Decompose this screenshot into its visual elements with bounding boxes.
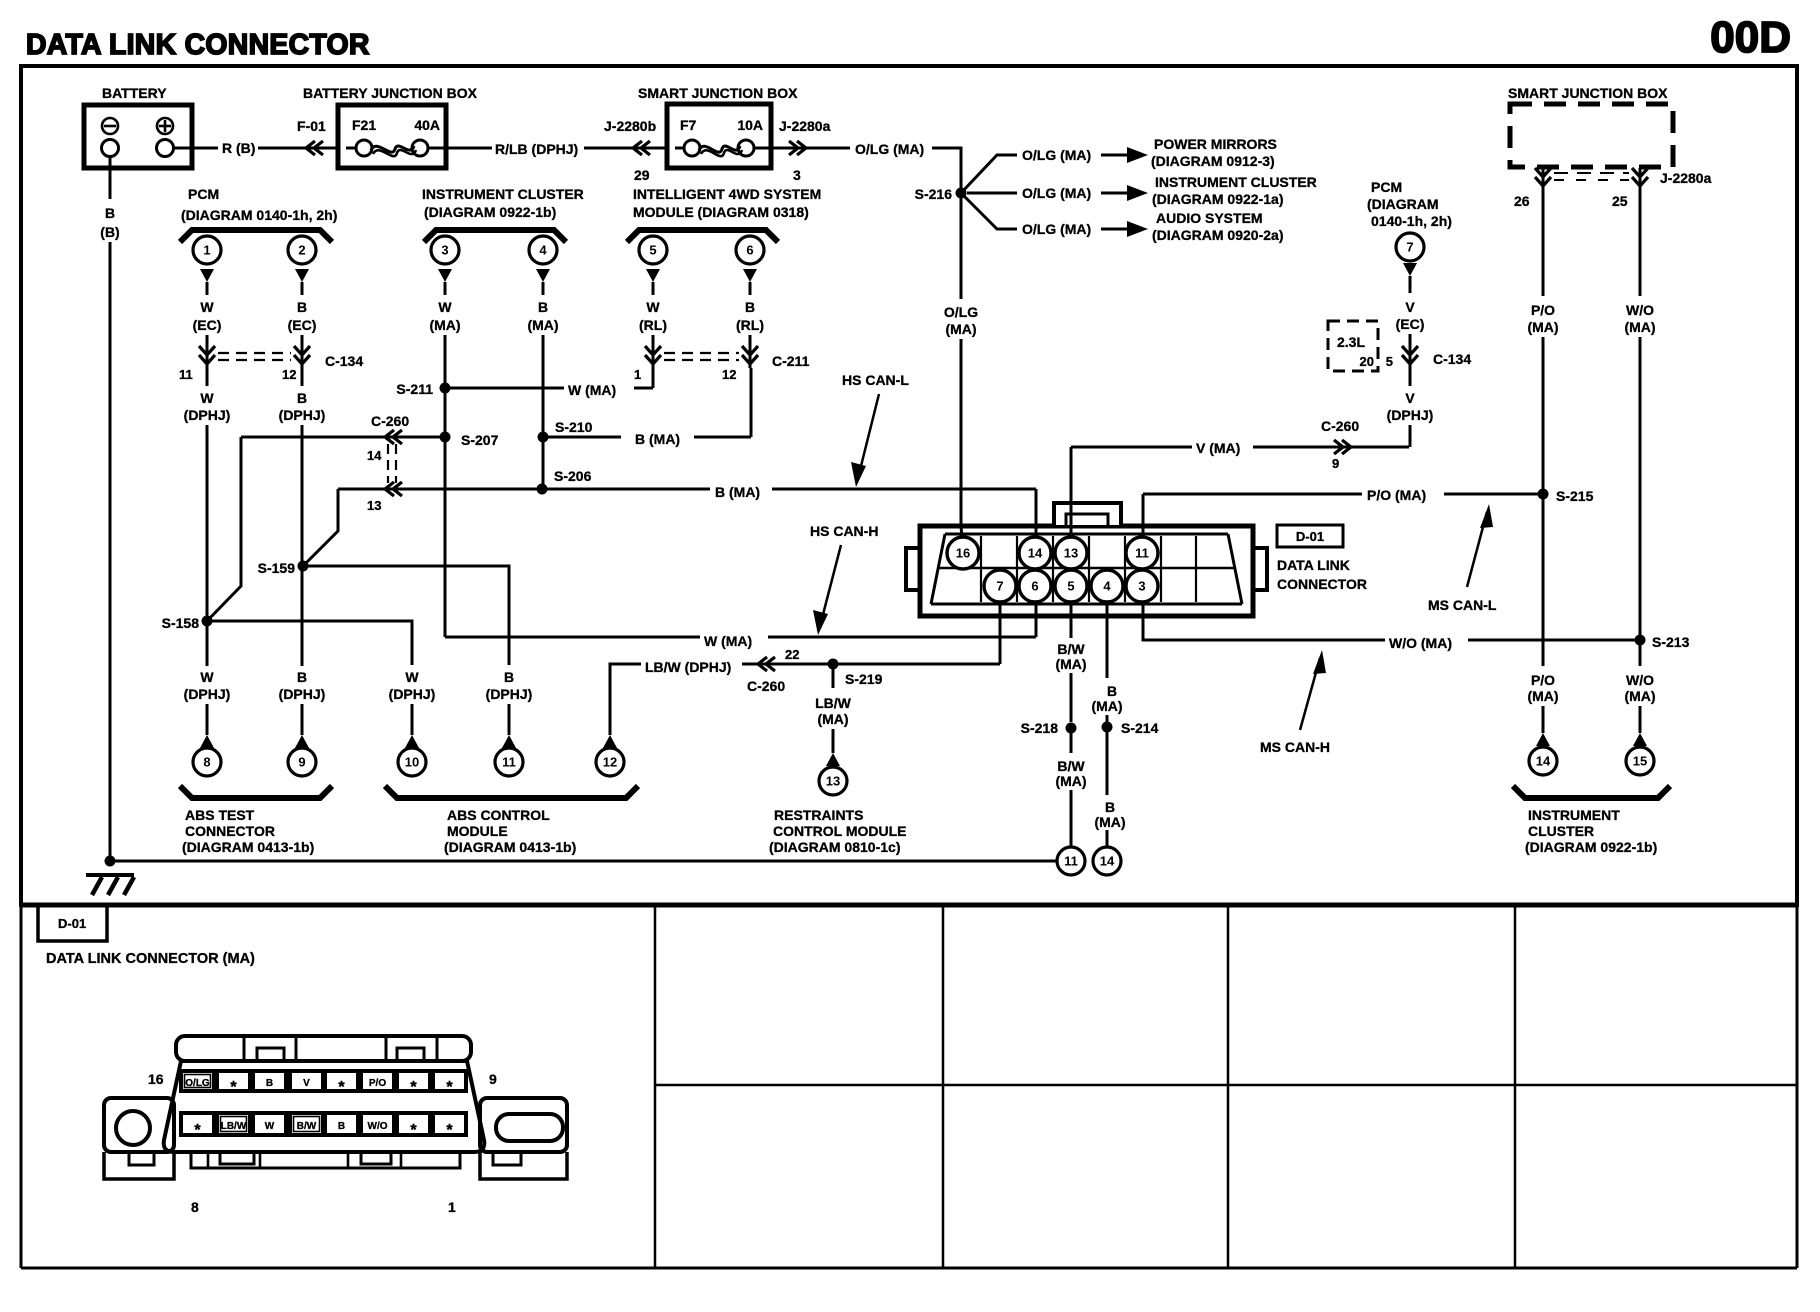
svg-text:W: W — [200, 299, 214, 315]
svg-text:P/O (MA): P/O (MA) — [1367, 487, 1426, 503]
svg-text:W: W — [405, 669, 419, 685]
svg-text:(DPHJ): (DPHJ) — [389, 686, 436, 702]
battery BATT — [84, 105, 192, 168]
DLC face pins bottom row — [181, 1113, 214, 1135]
wire B (EC) from pin at x=302 — [295, 269, 309, 282]
svg-text:B: B — [266, 1078, 273, 1089]
svg-text:O/LG: O/LG — [944, 304, 978, 320]
svg-text:LB/W (DPHJ): LB/W (DPHJ) — [645, 659, 731, 675]
svg-text:W: W — [200, 669, 214, 685]
svg-text:*: * — [194, 1122, 201, 1139]
main diagram frame — [21, 66, 1797, 905]
wire P/O (MA) from SJB pin 26 — [1542, 186, 1545, 296]
svg-text:*: * — [230, 1079, 237, 1096]
svg-text:W/O: W/O — [368, 1121, 388, 1132]
splice S-216 — [956, 188, 967, 199]
DLC pin 16 — [947, 537, 979, 569]
svg-text:3: 3 — [793, 167, 801, 183]
svg-text:*: * — [410, 1079, 417, 1096]
svg-text:LB/W: LB/W — [221, 1121, 247, 1132]
wire P/O (MA) DLC pin 11 riser — [1142, 494, 1145, 538]
svg-text:2.3L: 2.3L — [1337, 334, 1365, 350]
svg-text:P/O: P/O — [1531, 672, 1555, 688]
wire O/LG (MA) vertical to DLC pin 16 — [960, 193, 963, 299]
svg-text:CONNECTOR: CONNECTOR — [185, 823, 275, 839]
svg-text:B/W: B/W — [1057, 758, 1085, 774]
wire battery positive to R (B) — [174, 147, 218, 150]
D-01 cell tag — [38, 905, 107, 941]
svg-text:C-134: C-134 — [1433, 351, 1471, 367]
svg-text:1: 1 — [448, 1199, 456, 1215]
DLC face top strip — [176, 1036, 471, 1061]
connector C-211 pins 1/12 — [652, 346, 655, 368]
wire B (MA) S-210 to C-211 pin 12 — [543, 436, 621, 439]
splice S-159 — [298, 561, 309, 572]
wire V (EC) — [1403, 263, 1417, 276]
instrument cluster pin 3 — [431, 236, 459, 264]
ground symbol — [86, 873, 134, 877]
instrument cluster bracket — [424, 230, 566, 242]
svg-text:S-215: S-215 — [1556, 488, 1594, 504]
wire B (RL) from pin at x=750 — [743, 269, 757, 282]
wire LB/W (DPHJ) horizontal — [610, 664, 641, 700]
svg-text:40A: 40A — [414, 117, 440, 133]
wire instrument cluster B vertical — [542, 346, 545, 489]
ABS test connector bracket — [180, 786, 332, 798]
svg-text:W: W — [200, 390, 214, 406]
DLC pin 3 — [1126, 570, 1158, 602]
wire W (DPHJ) PCM pin1 vertical above label — [206, 621, 209, 666]
svg-text:(DIAGRAM 0810-1c): (DIAGRAM 0810-1c) — [769, 839, 900, 855]
svg-text:(EC): (EC) — [1396, 316, 1425, 332]
splice S-219 — [828, 659, 839, 670]
DLC pin 6 — [1019, 570, 1051, 602]
table middle line — [655, 1084, 1797, 1087]
svg-text:(MA): (MA) — [1624, 688, 1655, 704]
svg-text:S-214: S-214 — [1121, 720, 1159, 736]
svg-text:15: 15 — [1633, 754, 1647, 769]
svg-text:B: B — [538, 299, 548, 315]
svg-text:S-206: S-206 — [554, 468, 592, 484]
svg-text:J-2280a: J-2280a — [779, 118, 831, 134]
ground junction — [105, 856, 116, 867]
DLC inner outline — [931, 534, 1242, 604]
wire branch to instrument cluster — [967, 192, 1017, 195]
wire bend to S-159 — [303, 489, 338, 566]
svg-text:(DPHJ): (DPHJ) — [279, 686, 326, 702]
svg-text:W: W — [438, 299, 452, 315]
wire W/O (MA) from SJB pin 25 — [1639, 186, 1642, 296]
svg-text:(MA): (MA) — [1055, 773, 1086, 789]
svg-text:O/LG (MA): O/LG (MA) — [855, 141, 924, 157]
svg-text:W (MA): W (MA) — [704, 633, 752, 649]
battery junction box — [338, 105, 446, 168]
svg-text:W/O: W/O — [1626, 672, 1654, 688]
svg-text:CONTROL MODULE: CONTROL MODULE — [773, 823, 907, 839]
svg-text:B: B — [297, 299, 307, 315]
svg-text:J-2280b: J-2280b — [604, 118, 656, 134]
svg-text:(MA): (MA) — [429, 317, 460, 333]
svg-text:ABS TEST: ABS TEST — [185, 807, 255, 823]
wire W/O (MA) to instrument cluster pin 15 — [1639, 640, 1642, 666]
ABS pin 8 — [193, 748, 221, 776]
svg-text:16: 16 — [148, 1071, 164, 1087]
svg-text:(RL): (RL) — [736, 317, 764, 333]
connector J-2280a chevron — [771, 147, 850, 150]
svg-text:B: B — [338, 1121, 345, 1132]
svg-text:(DIAGRAM 0922-1b): (DIAGRAM 0922-1b) — [1525, 839, 1657, 855]
svg-text:1: 1 — [634, 367, 641, 382]
data link connector D-01 housing — [920, 526, 1253, 616]
svg-text:*: * — [446, 1079, 453, 1096]
wire DLC pin 7 to LB/W bus — [999, 602, 1002, 664]
svg-text:11: 11 — [1064, 854, 1078, 869]
svg-text:C-134: C-134 — [325, 353, 363, 369]
DLC pin 13 riser through notch — [1070, 447, 1073, 540]
svg-text:F-01: F-01 — [297, 118, 326, 134]
svg-text:29: 29 — [634, 167, 650, 183]
connector C-260 pin 22 chevron — [758, 657, 775, 671]
svg-text:W (MA): W (MA) — [568, 382, 616, 398]
connector C-260 pin 13 — [387, 444, 389, 483]
wire instrument cluster W vertical — [444, 346, 447, 388]
svg-text:4: 4 — [539, 243, 547, 258]
svg-text:D-01: D-01 — [1296, 529, 1324, 544]
wire V (DPHJ) — [1409, 368, 1412, 386]
svg-text:AUDIO SYSTEM: AUDIO SYSTEM — [1156, 210, 1263, 226]
2.3L variant box — [1328, 321, 1378, 371]
svg-text:J-2280a: J-2280a — [1660, 170, 1712, 186]
wire W (DPHJ) PCM pin 1 — [206, 368, 209, 386]
DLC pin 7 — [984, 570, 1016, 602]
instrument cluster pin 4 — [529, 236, 557, 264]
DLC face left ear — [104, 1098, 174, 1152]
svg-text:11: 11 — [502, 755, 516, 770]
svg-text:PCM: PCM — [1371, 179, 1402, 195]
svg-text:S-213: S-213 — [1652, 634, 1690, 650]
svg-text:11: 11 — [179, 367, 193, 382]
svg-text:(DIAGRAM 0922-1b): (DIAGRAM 0922-1b) — [424, 204, 556, 220]
svg-text:(MA): (MA) — [1055, 656, 1086, 672]
DLC face left foot — [104, 1152, 174, 1179]
wire R (B) to connector F-01 — [258, 147, 338, 150]
svg-text:O/LG (MA): O/LG (MA) — [1022, 147, 1091, 163]
4WD pin 5 — [639, 236, 667, 264]
svg-text:*: * — [338, 1079, 345, 1096]
svg-text:(EC): (EC) — [288, 317, 317, 333]
svg-text:S-158: S-158 — [162, 615, 200, 631]
PCM pin 1 — [193, 236, 221, 264]
svg-text:O/LG: O/LG — [185, 1078, 210, 1089]
svg-text:C-260: C-260 — [371, 413, 409, 429]
svg-text:V (MA): V (MA) — [1196, 440, 1240, 456]
svg-text:B/W: B/W — [297, 1121, 317, 1132]
svg-text:HS CAN-H: HS CAN-H — [810, 523, 878, 539]
wire branch to power mirrors — [961, 155, 1017, 193]
PCM module bracket — [180, 230, 332, 242]
svg-text:8: 8 — [191, 1199, 199, 1215]
wire B (DPHJ) PCM pin2 vertical above label — [301, 566, 304, 666]
svg-text:(MA): (MA) — [1624, 319, 1655, 335]
DLC face right ear — [480, 1098, 567, 1152]
DLC pin 5 — [1055, 570, 1087, 602]
svg-text:B: B — [745, 299, 755, 315]
svg-text:V: V — [303, 1078, 310, 1089]
svg-text:DATA LINK: DATA LINK — [1277, 557, 1350, 573]
svg-text:(DIAGRAM 0413-1b): (DIAGRAM 0413-1b) — [444, 839, 576, 855]
svg-text:(MA): (MA) — [945, 321, 976, 337]
svg-text:20: 20 — [1360, 354, 1374, 369]
svg-text:11: 11 — [1135, 546, 1149, 561]
wire riser to DLC pin 14 — [1035, 489, 1038, 538]
svg-text:12: 12 — [282, 367, 296, 382]
svg-text:9: 9 — [298, 755, 305, 770]
svg-text:(B): (B) — [100, 224, 119, 240]
svg-text:MODULE: MODULE — [447, 823, 508, 839]
wire bend to S-158 — [207, 437, 241, 621]
svg-text:W: W — [265, 1121, 275, 1132]
svg-text:(DPHJ): (DPHJ) — [1387, 407, 1434, 423]
svg-text:(DPHJ): (DPHJ) — [279, 407, 326, 423]
wire W (MA) S-211 to C-211 pin 1 — [445, 387, 564, 390]
4WD pin 6 — [736, 236, 764, 264]
DLC top notch — [1054, 503, 1121, 525]
connector C-134 pin 5 chevron — [1409, 346, 1412, 368]
svg-text:(DIAGRAM 0922-1a): (DIAGRAM 0922-1a) — [1152, 191, 1283, 207]
svg-text:C-260: C-260 — [1321, 418, 1359, 434]
DLC pin 13 — [1055, 537, 1087, 569]
svg-text:B/W: B/W — [1057, 641, 1085, 657]
svg-text:B: B — [297, 669, 307, 685]
svg-text:7: 7 — [1406, 240, 1413, 255]
splice S-215 — [1538, 489, 1549, 500]
DLC face body — [164, 1061, 485, 1152]
svg-text:25: 25 — [1612, 193, 1628, 209]
wire B (MA) DLC pin 4 — [1106, 602, 1109, 678]
wire S-158 branch to ABS pin 10 — [207, 621, 412, 665]
svg-text:BATTERY: BATTERY — [102, 85, 167, 101]
svg-text:13: 13 — [1064, 546, 1078, 561]
svg-text:S-207: S-207 — [461, 432, 499, 448]
svg-text:C-260: C-260 — [747, 678, 785, 694]
svg-text:9: 9 — [489, 1071, 497, 1087]
svg-text:BATTERY JUNCTION BOX: BATTERY JUNCTION BOX — [303, 85, 478, 101]
svg-text:D-01: D-01 — [58, 916, 86, 931]
instrument cluster pin 14 bottom — [1529, 747, 1557, 775]
svg-text:(DPHJ): (DPHJ) — [486, 686, 533, 702]
ground connector pin 11 — [1057, 847, 1085, 875]
svg-text:(DIAGRAM 0920-2a): (DIAGRAM 0920-2a) — [1152, 227, 1283, 243]
svg-text:9: 9 — [1332, 456, 1339, 471]
svg-text:5: 5 — [1386, 354, 1393, 369]
wire B (B) battery ground — [109, 156, 112, 199]
wire B (DPHJ) PCM pin 2 — [301, 368, 304, 386]
svg-text:(DPHJ): (DPHJ) — [184, 686, 231, 702]
svg-text:S-210: S-210 — [555, 419, 593, 435]
connector J-2280a pins 26/25 — [1542, 168, 1545, 188]
svg-text:10A: 10A — [737, 117, 763, 133]
svg-text:(MA): (MA) — [1527, 688, 1558, 704]
svg-text:B: B — [1107, 683, 1117, 699]
svg-text:MS CAN-L: MS CAN-L — [1428, 597, 1497, 613]
svg-text:(DIAGRAM 0413-1b): (DIAGRAM 0413-1b) — [182, 839, 314, 855]
svg-text:V: V — [1405, 299, 1415, 315]
svg-text:12: 12 — [722, 367, 736, 382]
table column lines — [654, 905, 657, 1268]
svg-text:3: 3 — [441, 243, 448, 258]
svg-text:MS CAN-H: MS CAN-H — [1260, 739, 1330, 755]
svg-text:P/O: P/O — [1531, 302, 1555, 318]
svg-text:26: 26 — [1514, 193, 1530, 209]
smart junction box right — [1510, 104, 1673, 167]
splice S-210 — [538, 432, 549, 443]
connector F-01 chevron — [306, 141, 323, 155]
splice S-214 — [1102, 722, 1113, 733]
svg-text:R (B): R (B) — [222, 140, 255, 156]
wire B (MA) HS CAN-L bus — [338, 488, 710, 491]
wire W/O (MA) DLC pin 3 riser — [1143, 602, 1385, 640]
svg-text:(MA): (MA) — [1091, 698, 1122, 714]
svg-text:B: B — [1105, 799, 1115, 815]
svg-text:*: * — [410, 1122, 417, 1139]
PCM pin 7 — [1396, 233, 1424, 261]
svg-text:P/O: P/O — [369, 1078, 386, 1089]
svg-text:SMART JUNCTION BOX: SMART JUNCTION BOX — [1508, 85, 1668, 101]
svg-text:MODULE (DIAGRAM 0318): MODULE (DIAGRAM 0318) — [633, 204, 809, 220]
DLC face right foot — [480, 1152, 567, 1179]
svg-text:5: 5 — [649, 243, 656, 258]
wire P/O (MA) MS CAN-L bus — [1143, 493, 1362, 496]
wire ground bus to connector pin 11 — [110, 860, 1056, 863]
svg-text:B (MA): B (MA) — [635, 431, 680, 447]
svg-text:B: B — [297, 390, 307, 406]
svg-text:S-216: S-216 — [915, 186, 953, 202]
instrument cluster pin 15 bottom — [1626, 747, 1654, 775]
svg-text:S-218: S-218 — [1021, 720, 1059, 736]
PCM pin 2 — [288, 236, 316, 264]
svg-text:8: 8 — [203, 755, 210, 770]
svg-text:16: 16 — [956, 546, 970, 561]
svg-text:DATA LINK CONNECTOR (MA): DATA LINK CONNECTOR (MA) — [46, 951, 255, 967]
svg-text:SMART JUNCTION BOX: SMART JUNCTION BOX — [638, 85, 798, 101]
ABS pin 10 — [398, 748, 426, 776]
svg-text:INSTRUMENT CLUSTER: INSTRUMENT CLUSTER — [1155, 174, 1317, 190]
connector J-2280b chevron — [633, 141, 650, 155]
splice S-207 — [440, 432, 451, 443]
svg-text:(DIAGRAM: (DIAGRAM — [1367, 196, 1439, 212]
wire S-159 branch to ABS pin 11 — [303, 566, 509, 665]
DLC face bottom strip — [191, 1152, 460, 1168]
connector C-260 pin 9 chevron — [1334, 440, 1351, 454]
wire R/LB (DPHJ) — [446, 147, 492, 150]
ground connector pin 14 — [1093, 847, 1121, 875]
svg-text:INSTRUMENT: INSTRUMENT — [1528, 807, 1620, 823]
svg-text:PCM: PCM — [188, 186, 219, 202]
svg-text:14: 14 — [1028, 546, 1043, 561]
svg-text:*: * — [446, 1122, 453, 1139]
svg-text:6: 6 — [746, 243, 753, 258]
connector C-134 pins 11/12 — [206, 346, 209, 368]
svg-text:V: V — [1405, 390, 1415, 406]
svg-text:F21: F21 — [352, 117, 376, 133]
wire W (MA) from pin at x=445 — [438, 269, 452, 282]
svg-text:14: 14 — [367, 448, 382, 463]
D-01 tag box — [1277, 525, 1343, 547]
svg-text:INTELLIGENT 4WD SYSTEM: INTELLIGENT 4WD SYSTEM — [633, 186, 821, 202]
intelligent 4WD bracket — [627, 230, 778, 242]
ABS pin 11 — [495, 748, 523, 776]
wire ABS pin 12 vertical — [609, 664, 612, 735]
svg-text:14: 14 — [1536, 754, 1551, 769]
svg-text:13: 13 — [367, 498, 381, 513]
svg-text:7: 7 — [996, 579, 1003, 594]
wire W (RL) from pin at x=653 — [646, 269, 660, 282]
svg-text:00D: 00D — [1710, 13, 1791, 62]
wire V (MA) DLC pin 13 to PCM — [1071, 446, 1192, 449]
svg-text:B: B — [105, 205, 115, 221]
svg-text:W/O (MA): W/O (MA) — [1389, 635, 1452, 651]
wire W (MA) HS CAN-H bus — [445, 636, 700, 639]
svg-text:4: 4 — [1103, 579, 1111, 594]
svg-text:S-159: S-159 — [258, 560, 296, 576]
svg-text:S-211: S-211 — [396, 381, 433, 397]
ABS pin 9 — [288, 748, 316, 776]
svg-text:5: 5 — [1067, 579, 1074, 594]
wire P/O (MA) to instrument cluster pin 14 — [1542, 494, 1545, 666]
ABS pin 12 — [596, 748, 624, 776]
svg-text:DATA LINK CONNECTOR: DATA LINK CONNECTOR — [26, 29, 370, 61]
svg-text:(MA): (MA) — [1527, 319, 1558, 335]
svg-text:22: 22 — [785, 647, 799, 662]
svg-text:B (MA): B (MA) — [715, 484, 760, 500]
svg-text:(DPHJ): (DPHJ) — [184, 407, 231, 423]
DLC face pins top row — [181, 1071, 214, 1091]
ABS control module bracket — [385, 786, 638, 798]
svg-text:RESTRAINTS: RESTRAINTS — [774, 807, 863, 823]
svg-text:C-211: C-211 — [772, 353, 810, 369]
wire B/W (MA) DLC pin 5 — [1070, 602, 1073, 638]
svg-text:S-219: S-219 — [845, 671, 883, 687]
svg-text:13: 13 — [826, 774, 840, 789]
wire B (MA) from pin at x=543 — [536, 269, 550, 282]
splice S-213 — [1635, 635, 1646, 646]
svg-text:B: B — [504, 669, 514, 685]
svg-text:2: 2 — [298, 243, 305, 258]
svg-text:F7: F7 — [680, 117, 697, 133]
svg-text:12: 12 — [603, 755, 617, 770]
svg-text:INSTRUMENT CLUSTER: INSTRUMENT CLUSTER — [422, 186, 584, 202]
svg-text:(RL): (RL) — [639, 317, 667, 333]
svg-text:10: 10 — [405, 755, 419, 770]
wire riser DLC pin 6 — [1035, 602, 1038, 637]
svg-text:O/LG (MA): O/LG (MA) — [1022, 221, 1091, 237]
svg-text:(DIAGRAM 0912-3): (DIAGRAM 0912-3) — [1151, 153, 1275, 169]
DLC pin 11 — [1126, 537, 1158, 569]
svg-text:W: W — [646, 299, 660, 315]
splice S-158 — [202, 616, 213, 627]
svg-text:0140-1h, 2h): 0140-1h, 2h) — [1371, 213, 1452, 229]
svg-text:(DIAGRAM 0140-1h, 2h): (DIAGRAM 0140-1h, 2h) — [181, 207, 337, 223]
smart junction box — [667, 104, 771, 168]
svg-text:POWER MIRRORS: POWER MIRRORS — [1154, 136, 1277, 152]
svg-text:(MA): (MA) — [817, 711, 848, 727]
splice S-218 — [1066, 723, 1077, 734]
svg-text:R/LB (DPHJ): R/LB (DPHJ) — [495, 141, 578, 157]
svg-text:LB/W: LB/W — [815, 695, 852, 711]
svg-text:W/O: W/O — [1626, 302, 1654, 318]
svg-text:14: 14 — [1100, 854, 1115, 869]
svg-text:(EC): (EC) — [193, 317, 222, 333]
